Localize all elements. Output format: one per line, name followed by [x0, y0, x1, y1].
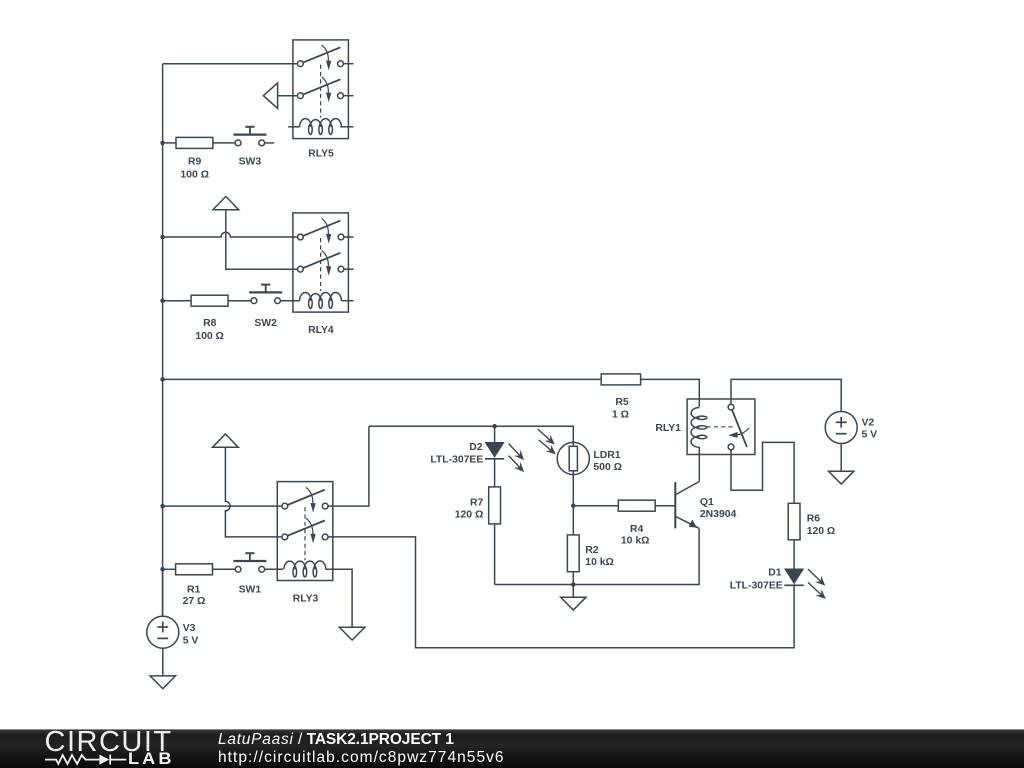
svg-text:R7: R7 [470, 498, 484, 509]
relay RLY4 coil [300, 293, 342, 309]
pushbutton SW1 [233, 553, 266, 572]
svg-text:D2: D2 [469, 442, 483, 453]
value V2 [862, 429, 878, 440]
svg-text:V2: V2 [862, 418, 875, 429]
wire R2 ground stem [572, 585, 574, 598]
svg-text:1 Ω: 1 Ω [612, 409, 629, 420]
svg-text:2N3904: 2N3904 [700, 509, 737, 520]
resistor R5 [601, 374, 640, 385]
resistor R9 [176, 137, 213, 148]
value Q1 [700, 509, 737, 520]
value R2 [585, 557, 614, 568]
relay RLY4 pole1 arm+arrow [303, 218, 340, 242]
junction node (bus/R8) [160, 298, 165, 303]
relay RLY4 pole2 arm+arrow [303, 251, 340, 275]
footer title text [218, 732, 454, 748]
relay RLY4 pole2 contacts [298, 266, 344, 272]
label R6 [807, 514, 821, 525]
svg-text:RLY4: RLY4 [308, 325, 334, 336]
svg-text:RLY5: RLY5 [308, 149, 334, 160]
junction node (bus/R5) [160, 377, 165, 382]
svg-text:5 V: 5 V [183, 635, 199, 646]
value R5 [612, 409, 629, 420]
wire junction to R4 [573, 505, 618, 507]
label RLY1 [655, 423, 681, 434]
wire bus to RLY3 pole1 [163, 505, 285, 507]
wire R8 to SW2 [228, 300, 254, 302]
value D1 [730, 580, 783, 591]
relay RLY3 box [277, 482, 333, 581]
resistor R8 [191, 295, 228, 306]
relay RLY5 pole1 arm+arrow [303, 45, 340, 69]
resistor R4 [618, 500, 655, 511]
value R6 [807, 526, 836, 537]
wire RLY3 coil right to ground [326, 569, 353, 627]
label D2 [469, 442, 483, 453]
wire VCC stem hop over pole1 row, to RLY3 pole2 [225, 447, 284, 537]
resistor R6 [788, 503, 800, 540]
relay RLY1 box [687, 399, 755, 455]
svg-text:R4: R4 [630, 524, 644, 535]
relay RLY5 dashed link [320, 65, 322, 118]
wire D2 cathode to R7 [494, 459, 496, 487]
wire RLY3 pole2 NO to D1 cathode rail [325, 537, 794, 648]
svg-text:5 V: 5 V [862, 429, 878, 440]
wire top rail to LDR1 [369, 426, 573, 446]
label R2 [585, 545, 599, 556]
svg-text:120 Ω: 120 Ω [455, 509, 484, 520]
svg-text:R9: R9 [188, 157, 202, 168]
LDR1 light arrows [538, 429, 556, 454]
wire SW1 to RLY3 coil [262, 568, 284, 570]
label LDR1 [593, 450, 620, 461]
label R7 [470, 498, 484, 509]
svg-text:LTL-307EE: LTL-307EE [430, 455, 483, 466]
wire RLY4 pole1 NO stub [341, 236, 354, 238]
LED D1 light arrows [808, 569, 826, 599]
wire R1 lead from bus [163, 568, 176, 570]
svg-text:SW3: SW3 [239, 157, 262, 168]
svg-text:RLY1: RLY1 [655, 423, 681, 434]
label RLY5 [308, 149, 334, 160]
svg-text:10 kΩ: 10 kΩ [585, 557, 614, 568]
wire RLY5 pole1 NO stub [341, 63, 354, 65]
wire RLY1 common to V2+ [731, 379, 841, 411]
ground (RLY3 coil) [339, 627, 364, 640]
voltage source V2 [825, 412, 857, 444]
value R8 [195, 331, 224, 342]
label R1 [187, 585, 201, 596]
wire bus to R5 [163, 378, 602, 380]
node flag RLY5 pole2 (left arrow) [263, 83, 300, 109]
label V2 [862, 418, 875, 429]
label R9 [188, 157, 202, 168]
value LDR1 [593, 462, 622, 473]
wire RLY5 coil left stub [288, 126, 300, 128]
svg-text:120 Ω: 120 Ω [807, 526, 836, 537]
CircuitLab logo wordmark LAB [128, 751, 175, 768]
svg-text:R2: R2 [585, 545, 599, 556]
value R1 [183, 596, 206, 607]
wire R1 to SW1 [213, 568, 239, 570]
power flag VCC (above RLY4) [213, 196, 239, 209]
relay RLY1 contacts [728, 404, 734, 450]
label V3 [183, 623, 196, 634]
CircuitLab logo wordmark CIRCUIT [45, 728, 173, 757]
svg-text:SW2: SW2 [254, 318, 277, 329]
relay RLY3 pole2 contacts [282, 534, 328, 540]
photoresistor LDR1 [557, 442, 589, 474]
relay RLY4 pole1 contacts [298, 234, 344, 240]
svg-text:V3: V3 [183, 623, 196, 634]
relay RLY4 box [293, 213, 349, 312]
svg-text:100 Ω: 100 Ω [180, 170, 209, 181]
value R9 [180, 170, 209, 181]
footer url text [218, 750, 505, 766]
power flag VCC (above RLY3) [213, 434, 239, 447]
wire RLY5 pole2 NO stub [341, 95, 354, 97]
LED D2 light arrows [509, 444, 524, 472]
svg-text:100 Ω: 100 Ω [195, 331, 224, 342]
svg-text:R5: R5 [615, 397, 629, 408]
svg-text:R1: R1 [187, 585, 201, 596]
junction node (D2 anode) [492, 424, 497, 429]
relay RLY1 arm+arrow [729, 410, 749, 447]
wire RLY1 NO to R6 (stair) [731, 442, 794, 503]
svg-text:Q1: Q1 [700, 497, 714, 508]
svg-text:D1: D1 [768, 568, 782, 579]
resistor R1 [176, 564, 213, 575]
wire SW3 right stub [262, 142, 275, 144]
wire V3 to ground [162, 648, 164, 676]
relay RLY5 coil [300, 119, 342, 135]
relay RLY5 pole2 arm+arrow [303, 77, 340, 101]
transistor Q1 [675, 482, 699, 529]
junction node (bus/RLY4 pole1) [160, 235, 165, 240]
relay RLY5 pole2 contacts [298, 93, 344, 99]
CircuitLab logo resistor-diode squiggle [0, 729, 200, 768]
wire RLY4 coil right stub [341, 300, 353, 302]
label D1 [768, 568, 782, 579]
wire R5 to RLY1 coil top [641, 379, 700, 406]
wire R8 lead from bus [163, 300, 192, 302]
label R5 [615, 397, 629, 408]
junction node (bus/RLY3 pole1) [160, 504, 165, 509]
wire bottom rail R7/R2/Q1 emitter [495, 528, 699, 584]
voltage source V3 [147, 616, 179, 648]
wire R9 lead from bus [163, 142, 176, 144]
relay RLY3 pole1 contacts [282, 503, 328, 509]
label R4 [630, 524, 644, 535]
label RLY3 [293, 593, 319, 604]
junction node (bus/R9) [160, 141, 165, 146]
relay RLY1 dashed link [707, 426, 734, 428]
wire bus to V3+ [162, 569, 164, 616]
wire V2 to ground [840, 444, 842, 472]
footer bar [0, 729, 1024, 768]
wire VCC stem to RLY4 pole2 [226, 210, 301, 270]
wire R2 to bottom rail [572, 572, 574, 585]
svg-text:RLY3: RLY3 [293, 593, 319, 604]
svg-text:10 kΩ: 10 kΩ [621, 535, 650, 546]
label RLY4 [308, 325, 334, 336]
label SW3 [239, 157, 262, 168]
resistor R7 [489, 487, 501, 524]
wire main left vertical bus [162, 64, 164, 617]
svg-text:LDR1: LDR1 [593, 450, 620, 461]
pushbutton SW2 [249, 285, 282, 304]
wire R9 to SW3 [213, 142, 238, 144]
relay RLY5 box [293, 40, 349, 139]
label SW1 [239, 585, 262, 596]
svg-text:R6: R6 [807, 514, 821, 525]
junction node (LDR1/R2/R4) [571, 503, 576, 508]
pushbutton SW3 [233, 127, 266, 146]
label R8 [203, 318, 217, 329]
wire RLY4 pole2 NO stub [341, 268, 354, 270]
value V3 [183, 635, 199, 646]
wire D2 anode lead [494, 426, 496, 442]
svg-text:R8: R8 [203, 318, 217, 329]
relay RLY3 pole1 arm+arrow [287, 487, 324, 511]
svg-text:SW1: SW1 [239, 585, 262, 596]
wire R6 to D1 anode [793, 540, 795, 569]
wire RLY5 coil right stub [340, 126, 353, 128]
relay RLY4 dashed link [320, 238, 322, 291]
value R4 [621, 535, 650, 546]
wire SW2 to RLY4 coil [278, 300, 300, 302]
wire bus to RLY4 pole1 (hop over VCC stem) [163, 232, 301, 237]
wire LDR1 to R2 junction [572, 471, 574, 535]
resistor R2 [567, 535, 579, 572]
wire R4 to Q1 base [655, 505, 674, 507]
wire R7 to bottom rail [494, 524, 496, 585]
ground (below V2) [829, 471, 854, 484]
label SW2 [254, 318, 277, 329]
svg-text:500 Ω: 500 Ω [593, 462, 622, 473]
wire RLY3 pole1 NO up to top rail [325, 426, 369, 506]
diode D2 (LED) [485, 443, 504, 459]
relay RLY3 dashed link [304, 507, 306, 560]
relay RLY5 pole1 contacts [298, 61, 344, 67]
diode D1 (LED) [784, 569, 803, 585]
wire RLY1 coil bottom to Q1 collector [698, 447, 700, 482]
value R7 [455, 509, 484, 520]
relay RLY1 coil [691, 408, 707, 448]
label Q1 [700, 497, 714, 508]
wire bus top to RLY5 pole1 [163, 63, 301, 65]
ground (below V3) [150, 676, 175, 689]
svg-text:LTL-307EE: LTL-307EE [730, 580, 783, 591]
junction node (bus/R1) [160, 567, 165, 572]
value D2 [430, 455, 483, 466]
relay RLY3 coil [284, 561, 326, 577]
relay RLY3 pole2 arm+arrow [287, 518, 324, 542]
ground (below R2) [561, 597, 586, 610]
junction node (R2/bottom rail) [571, 582, 576, 587]
svg-text:27 Ω: 27 Ω [183, 596, 206, 607]
